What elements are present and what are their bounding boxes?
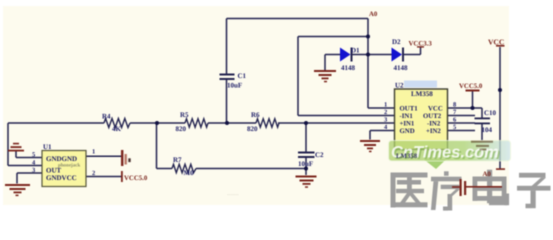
svg-text:LM358: LM358 — [396, 153, 418, 160]
svg-text:4148: 4148 — [341, 64, 356, 72]
svg-text:1: 1 — [384, 102, 387, 109]
svg-text:VCC5.0: VCC5.0 — [124, 175, 148, 182]
svg-text:4148: 4148 — [394, 64, 409, 72]
svg-text:GNDGND: GNDGND — [46, 155, 77, 163]
svg-text:A0: A0 — [369, 11, 378, 18]
svg-text:VCC: VCC — [488, 38, 504, 47]
svg-text:R6: R6 — [251, 111, 260, 119]
svg-text:GNDVCC: GNDVCC — [46, 174, 77, 182]
svg-text:VCC: VCC — [428, 106, 443, 113]
svg-text:R7: R7 — [173, 156, 182, 164]
svg-text:U1: U1 — [43, 143, 52, 151]
svg-text:1: 1 — [92, 149, 95, 156]
svg-text:M0: M0 — [184, 169, 195, 177]
svg-text:10uF: 10uF — [298, 160, 313, 168]
svg-text:D1: D1 — [351, 47, 360, 55]
svg-text:D2: D2 — [392, 38, 401, 46]
svg-text:10uF: 10uF — [227, 82, 242, 90]
svg-text:104: 104 — [482, 126, 493, 134]
svg-text:C1: C1 — [238, 72, 247, 80]
svg-text:A0: A0 — [483, 171, 492, 178]
svg-text:VCC3.3: VCC3.3 — [409, 41, 433, 48]
svg-text:820: 820 — [176, 125, 187, 133]
svg-text:C2: C2 — [315, 151, 324, 159]
svg-text:phonejack: phonejack — [58, 163, 80, 169]
svg-text:LM358: LM358 — [411, 90, 433, 98]
svg-text:4K: 4K — [112, 125, 122, 133]
svg-text:R5: R5 — [180, 111, 189, 119]
svg-text:U2: U2 — [395, 82, 404, 90]
svg-text:C10: C10 — [484, 109, 497, 117]
svg-text:+IN2: +IN2 — [426, 128, 441, 135]
svg-text:R4: R4 — [102, 113, 111, 121]
svg-text:-IN2: -IN2 — [427, 121, 441, 128]
svg-text:2: 2 — [92, 170, 95, 177]
svg-text:-IN1: -IN1 — [400, 113, 414, 120]
svg-text:OUT1: OUT1 — [400, 106, 419, 113]
svg-text:OUT2: OUT2 — [423, 113, 442, 120]
svg-text:820: 820 — [247, 125, 258, 133]
svg-text:2: 2 — [384, 109, 387, 116]
svg-text:VCC5.0: VCC5.0 — [459, 83, 483, 90]
svg-text:+IN1: +IN1 — [400, 121, 415, 128]
svg-text:GND: GND — [400, 128, 415, 135]
svg-text:.......: ....... — [227, 191, 239, 197]
